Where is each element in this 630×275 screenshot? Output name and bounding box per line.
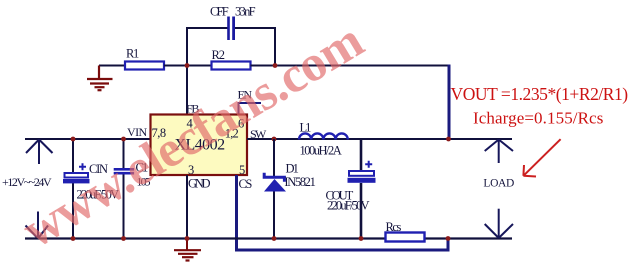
svg-text:R2: R2: [212, 48, 225, 62]
resistor R2: [212, 48, 251, 70]
op-amp U1 XL4002 body: [151, 115, 248, 176]
wire VIN input line: [25, 138, 151, 140]
node FB junction dot: [185, 63, 190, 68]
ground GND1 (top-left earth): [87, 66, 113, 91]
svg-text:100uH/2A: 100uH/2A: [300, 143, 342, 157]
wire CIN branch: [72, 139, 74, 239]
node VIN-CIN dot: [71, 137, 76, 142]
svg-text:L1: L1: [300, 121, 312, 135]
wire CFF right vertical: [274, 27, 276, 66]
svg-text:+12V~~24V: +12V~~24V: [2, 175, 52, 189]
node rail Rcs-CS dot: [446, 236, 451, 241]
svg-text:D1: D1: [286, 162, 299, 176]
arrow LOAD up: [485, 140, 513, 164]
svg-text:Icharge=0.155/Rcs: Icharge=0.155/Rcs: [473, 109, 603, 128]
svg-text:LOAD: LOAD: [483, 178, 514, 190]
wire bottom rail left: [25, 237, 386, 239]
diode D1 schottky: [264, 162, 316, 192]
wire D1 branch: [273, 139, 275, 239]
wire bottom rail right: [425, 237, 513, 239]
wire COUT branch: [360, 139, 363, 239]
svg-text:CFF: CFF: [210, 5, 229, 19]
wire CFF loop left vertical (FB riser): [186, 28, 188, 116]
wire GND pin to earth: [186, 175, 188, 239]
wire CFF top left: [186, 27, 228, 29]
svg-text:220uF/50V: 220uF/50V: [327, 199, 370, 213]
svg-text:33nF: 33nF: [235, 5, 256, 19]
resistor R1: [125, 47, 164, 70]
svg-text:5: 5: [239, 163, 245, 177]
node VOUT dot: [446, 137, 451, 142]
svg-text:GND: GND: [188, 176, 210, 190]
capacitor C1: [114, 161, 151, 189]
capacitor COUT: [326, 161, 376, 213]
wire R1 to node FB: [164, 65, 212, 67]
svg-text:R1: R1: [126, 47, 139, 61]
capacitor CFF: [210, 5, 256, 41]
node SW-D1 dot: [272, 137, 277, 142]
arrow input up: [26, 140, 53, 165]
arrow input down: [26, 212, 49, 239]
svg-text:IN5821: IN5821: [284, 175, 315, 189]
inductor L1: [299, 121, 348, 158]
arrow LOAD down: [485, 209, 513, 238]
node rail GND dot: [185, 236, 190, 241]
node R2-CFF junction dot: [273, 63, 278, 68]
svg-text:VOUT =1.235*(1+R2/R1): VOUT =1.235*(1+R2/R1): [451, 84, 629, 104]
ground GND2 (middle earth): [174, 250, 201, 260]
wire R2 right to corner: [251, 65, 450, 67]
svg-text:Rcs: Rcs: [386, 220, 402, 234]
wire C1 branch: [123, 139, 125, 239]
watermark www.elecfans.com: [13, 13, 372, 260]
wire R1 left to ground: [99, 65, 125, 67]
node rail COUT dot: [359, 236, 364, 241]
node rail CIN dot: [71, 236, 76, 241]
wire EN stub: [238, 103, 262, 116]
arrow red annotation: [523, 139, 560, 176]
wire SW output line: [247, 138, 512, 140]
wire vertical corner down to VOUT line: [448, 65, 451, 140]
node rail C1 dot: [121, 236, 126, 241]
resistor Rcs: [386, 220, 425, 242]
node VIN-C1 dot: [121, 137, 126, 142]
svg-text:www.elecfans.com: www.elecfans.com: [13, 13, 372, 260]
svg-text:CS: CS: [239, 177, 253, 191]
capacitor CIN: [63, 162, 119, 202]
wire CS sense path: [237, 175, 449, 250]
wire CFF top right: [235, 27, 276, 29]
node rail D1 dot: [272, 236, 277, 241]
